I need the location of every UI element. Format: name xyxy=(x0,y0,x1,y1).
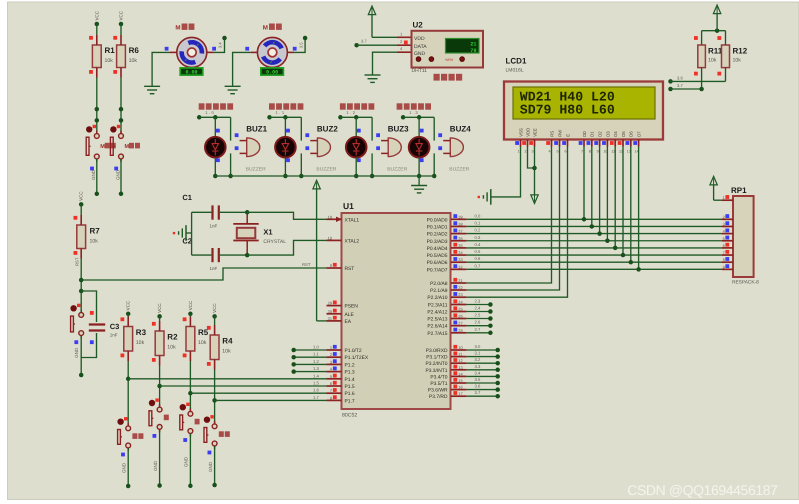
svg-text:P0.7/AD7: P0.7/AD7 xyxy=(427,267,448,273)
svg-text:1.2: 1.2 xyxy=(313,359,319,364)
capacitor C3 xyxy=(81,291,119,358)
svg-text:6: 6 xyxy=(564,150,566,154)
svg-text:37: 37 xyxy=(458,229,462,234)
wire key to GND end xyxy=(208,446,217,487)
svg-text:VSS: VSS xyxy=(518,128,523,137)
net labels 0.0-0.7 xyxy=(475,213,481,268)
wire button K2 to GND node xyxy=(114,159,123,196)
wire button K1 to GND node xyxy=(90,159,99,196)
svg-text:VDD: VDD xyxy=(525,128,530,137)
svg-text:BUZZER: BUZZER xyxy=(387,166,407,172)
svg-text:R3: R3 xyxy=(136,328,147,337)
svg-text:D4: D4 xyxy=(613,131,618,137)
svg-text:VCC: VCC xyxy=(94,10,99,20)
svg-text:M: M xyxy=(100,144,105,150)
svg-text:P2.0/A8: P2.0/A8 xyxy=(430,281,448,287)
button K2 (M const-speed key) xyxy=(110,125,123,162)
svg-text:21: 21 xyxy=(470,42,476,48)
svg-text:3.7: 3.7 xyxy=(361,39,367,44)
svg-text:GND: GND xyxy=(115,169,120,180)
svg-text:BUZ2: BUZ2 xyxy=(317,124,338,133)
svg-text:GND: GND xyxy=(74,347,79,358)
svg-text:39: 39 xyxy=(458,214,462,219)
svg-text:5: 5 xyxy=(556,150,558,154)
svg-text:2.4: 2.4 xyxy=(475,306,481,311)
wire R11/R12 tops to power xyxy=(702,14,726,33)
microcontroller U1 80C52 xyxy=(327,201,467,419)
svg-text:1: 1 xyxy=(517,150,519,154)
wire P0 bus to RP1 xyxy=(466,219,722,269)
svg-text:M: M xyxy=(125,144,130,150)
svg-text:3.6: 3.6 xyxy=(677,75,683,80)
svg-text:M: M xyxy=(263,25,268,32)
svg-text:9: 9 xyxy=(723,264,725,269)
resistor R12 xyxy=(717,31,747,82)
resistor R1 xyxy=(89,35,115,78)
svg-text:P0.4/AD4: P0.4/AD4 xyxy=(427,246,448,252)
svg-text:3.2: 3.2 xyxy=(475,357,481,362)
svg-text:P2.2/A10: P2.2/A10 xyxy=(427,295,447,301)
svg-text:1.1: 1.1 xyxy=(313,352,319,357)
svg-text:P1.0/T2: P1.0/T2 xyxy=(345,348,362,354)
svg-text:25: 25 xyxy=(458,307,462,312)
resistor R2 xyxy=(152,316,178,365)
wire R5 to key xyxy=(188,361,193,411)
svg-text:17: 17 xyxy=(458,391,462,396)
svg-text:10k: 10k xyxy=(198,340,207,346)
resistor R5 xyxy=(183,314,209,361)
svg-text:33: 33 xyxy=(458,257,462,262)
net label 1.1 xyxy=(276,110,286,115)
svg-text:13: 13 xyxy=(458,365,462,370)
power terminal (RP1) xyxy=(710,176,717,200)
svg-text:23: 23 xyxy=(458,292,462,297)
label key (red) xyxy=(195,419,200,425)
wire U2 DATA net stub 3.7 xyxy=(354,39,397,48)
label U2 (thermo-hygrometer) xyxy=(434,74,463,81)
watermark xyxy=(627,482,778,498)
wire R1 to button K1 xyxy=(95,78,100,134)
svg-text:RST: RST xyxy=(302,262,311,267)
label alarm 2 (red) xyxy=(269,103,303,109)
svg-text:R7: R7 xyxy=(90,227,101,236)
svg-text:3: 3 xyxy=(723,221,725,226)
svg-text:R2: R2 xyxy=(167,333,178,342)
wire key to GND end xyxy=(121,448,130,488)
wire buzzer group BUZ2 top xyxy=(267,115,301,141)
svg-text:RST: RST xyxy=(75,257,80,266)
svg-text:P3.5/T1: P3.5/T1 xyxy=(430,381,447,387)
svg-text:VCC: VCC xyxy=(79,191,84,201)
svg-text:D1: D1 xyxy=(590,131,595,137)
svg-text:10k: 10k xyxy=(90,239,99,245)
wire crystal left rail xyxy=(191,212,193,255)
svg-text:9: 9 xyxy=(330,263,332,268)
svg-text:R6: R6 xyxy=(129,46,140,55)
svg-text:10k: 10k xyxy=(105,58,114,64)
svg-text:10k: 10k xyxy=(733,58,742,64)
svg-text:10k: 10k xyxy=(167,345,176,351)
LED D1 xyxy=(205,129,226,162)
svg-text:3.4: 3.4 xyxy=(475,370,481,375)
svg-text:0.0: 0.0 xyxy=(475,213,481,218)
svg-text:1.6: 1.6 xyxy=(313,388,319,393)
wire power to U1 EA xyxy=(317,320,327,322)
svg-text:80C52: 80C52 xyxy=(342,413,357,419)
wire buzzer group BUZ3 top xyxy=(338,115,372,141)
wire buzzer group BUZ4 top xyxy=(401,115,434,141)
wire key to GND end xyxy=(153,430,162,488)
svg-text:1.3: 1.3 xyxy=(313,366,319,371)
svg-text:P1.5: P1.5 xyxy=(345,384,355,390)
LCD1 LM016L xyxy=(504,57,663,154)
resistor R6 xyxy=(113,35,139,78)
svg-text:32: 32 xyxy=(458,264,462,269)
svg-text:GND: GND xyxy=(414,51,426,57)
label M-key 2 xyxy=(125,143,141,150)
svg-text:1.0: 1.0 xyxy=(313,345,319,350)
svg-text:27: 27 xyxy=(458,321,462,326)
resistor R3 xyxy=(121,314,147,361)
svg-text:8: 8 xyxy=(330,395,332,400)
svg-text:D2: D2 xyxy=(598,131,603,137)
svg-text:3.3: 3.3 xyxy=(475,364,481,369)
wire reset button branch xyxy=(74,291,81,358)
wire R7 to reset node xyxy=(79,259,84,294)
svg-text:VCC: VCC xyxy=(188,300,193,310)
svg-text:BUZZER: BUZZER xyxy=(246,166,266,172)
svg-text:21: 21 xyxy=(458,278,462,283)
power VCC terminal (R6 column) xyxy=(119,10,124,26)
LED D2 xyxy=(275,129,296,162)
svg-text:6: 6 xyxy=(723,243,725,248)
svg-text:VCC: VCC xyxy=(212,303,217,313)
svg-text:1: 1 xyxy=(723,195,725,200)
svg-text:RP1: RP1 xyxy=(731,186,747,195)
net label 1.3 xyxy=(409,110,419,115)
svg-text:28: 28 xyxy=(458,328,462,333)
svg-text:GND: GND xyxy=(91,169,96,180)
svg-text:P2.5/A13: P2.5/A13 xyxy=(427,317,447,323)
svg-text:0.00: 0.00 xyxy=(185,70,197,76)
svg-text:P0.5/AD5: P0.5/AD5 xyxy=(427,253,448,259)
wire LCD data D0-D7 to P0 bus xyxy=(582,147,641,272)
wire net 1.7 to U1 xyxy=(215,399,327,401)
svg-text:5: 5 xyxy=(330,374,332,379)
svg-text:22: 22 xyxy=(458,285,462,290)
label alarm 4 (red) xyxy=(397,103,431,109)
motor M1 (speed-adjust fan) xyxy=(175,24,206,68)
svg-text:P3.4/T0: P3.4/T0 xyxy=(430,374,447,380)
resistor R4 xyxy=(207,316,233,369)
svg-text:XTAL1: XTAL1 xyxy=(345,217,360,223)
svg-text:%RH: %RH xyxy=(445,58,454,62)
svg-text:P0.2/AD2: P0.2/AD2 xyxy=(427,232,448,238)
ground (U2) xyxy=(365,75,381,82)
svg-text:ALE: ALE xyxy=(345,312,355,318)
buzzer BUZ1 xyxy=(235,124,268,172)
svg-text:2.6: 2.6 xyxy=(475,320,481,325)
svg-text:3.7: 3.7 xyxy=(475,390,481,395)
svg-text:D5: D5 xyxy=(621,131,626,137)
svg-text:P1.1/T2EX: P1.1/T2EX xyxy=(345,355,369,361)
LED D3 xyxy=(346,129,367,162)
svg-text:3.7: 3.7 xyxy=(677,83,683,88)
power VCC terminal (R1 column) xyxy=(94,10,99,26)
wire net stubs P1.0-P1.3 xyxy=(291,348,326,374)
buzzer BUZ4 xyxy=(438,124,471,172)
svg-text:3.5: 3.5 xyxy=(298,42,303,48)
button K6 xyxy=(204,415,217,449)
svg-text:2.7: 2.7 xyxy=(475,327,481,332)
svg-text:BUZZER: BUZZER xyxy=(316,166,336,172)
svg-text:6: 6 xyxy=(330,381,332,386)
crystal X1 xyxy=(233,210,286,257)
svg-text:D6: D6 xyxy=(629,131,634,137)
svg-text:1: 1 xyxy=(330,345,332,350)
svg-text:0.5: 0.5 xyxy=(475,249,481,254)
svg-text:LM016L: LM016L xyxy=(506,68,524,74)
svg-text:D0: D0 xyxy=(582,131,587,137)
svg-text:X1: X1 xyxy=(263,228,272,237)
svg-text:79: 79 xyxy=(470,48,476,54)
wire net 1.4 to U1 xyxy=(128,378,326,380)
wire X1 top to U1 XTAL1 xyxy=(247,212,326,219)
svg-text:D7: D7 xyxy=(637,131,642,137)
svg-text:VDD: VDD xyxy=(414,36,425,42)
svg-text:PSEN: PSEN xyxy=(345,304,359,310)
svg-text:P3.0/RXD: P3.0/RXD xyxy=(426,348,448,354)
svg-text:35: 35 xyxy=(458,243,462,248)
svg-text:P1.3: P1.3 xyxy=(345,370,355,376)
svg-text:1nF: 1nF xyxy=(110,333,118,338)
svg-text:9: 9 xyxy=(597,150,599,154)
svg-text:GND: GND xyxy=(208,461,213,472)
wire VCC to R6 xyxy=(120,24,122,35)
svg-text:P3.7/RD: P3.7/RD xyxy=(429,394,448,400)
svg-text:2.5: 2.5 xyxy=(475,313,481,318)
ground (crystal) xyxy=(173,225,192,241)
svg-text:R12: R12 xyxy=(733,47,748,56)
power VCC terminal (R3) xyxy=(126,300,131,316)
svg-text:1.4: 1.4 xyxy=(313,373,319,378)
svg-text:VCC: VCC xyxy=(157,303,162,313)
svg-text:1.0: 1.0 xyxy=(205,110,215,115)
svg-text:VCC: VCC xyxy=(119,10,124,20)
svg-text:SD79 H80 L60: SD79 H80 L60 xyxy=(520,103,615,118)
svg-text:38: 38 xyxy=(458,221,462,226)
svg-text:19: 19 xyxy=(328,214,332,219)
svg-text:7: 7 xyxy=(581,150,583,154)
svg-text:BUZZER: BUZZER xyxy=(449,166,469,172)
svg-text:2.3: 2.3 xyxy=(475,299,481,304)
wire P2.2 to LCD E xyxy=(466,147,567,298)
wire P2.0 to LCD RS xyxy=(466,147,551,284)
svg-text:0.4: 0.4 xyxy=(475,242,481,247)
wire net 1.6 to U1 xyxy=(190,392,326,394)
svg-text:DATA: DATA xyxy=(414,44,427,50)
svg-text:8: 8 xyxy=(723,257,725,262)
svg-text:3.5: 3.5 xyxy=(475,377,481,382)
svg-text:1.2: 1.2 xyxy=(346,110,356,115)
wire power to RP1 pin1 xyxy=(714,199,722,201)
power terminal down (LCD VEE) xyxy=(531,195,538,204)
ground (motor M1) xyxy=(144,86,160,93)
wire LCD VSS to ground xyxy=(491,147,521,197)
svg-text:7: 7 xyxy=(723,250,725,255)
svg-text:18: 18 xyxy=(328,235,332,240)
label key (red) xyxy=(164,415,169,421)
wire buzzer ground rail xyxy=(215,176,434,186)
label M-key 1 xyxy=(100,143,116,150)
wire R6 to button K2 xyxy=(119,78,124,134)
svg-text:P0.0/AD0: P0.0/AD0 xyxy=(427,217,448,223)
svg-text:1.3: 1.3 xyxy=(409,110,419,115)
svg-text:P3.2/INT0: P3.2/INT0 xyxy=(425,361,447,367)
wire U2 GND to ground xyxy=(373,52,398,75)
svg-text:BUZ4: BUZ4 xyxy=(450,124,471,133)
wire BUZ4 pins to rail xyxy=(417,153,437,178)
wire motor M1 left pin to ground xyxy=(152,47,177,87)
net labels 1.0-1.7 xyxy=(313,345,319,400)
label alarm 3 (red) xyxy=(340,103,374,109)
wire net 1.5 to U1 xyxy=(160,385,327,387)
resistor R7 xyxy=(74,215,101,266)
svg-text:3: 3 xyxy=(531,150,533,154)
svg-text:CSDN @QQ1694456187: CSDN @QQ1694456187 xyxy=(627,482,778,498)
svg-text:15: 15 xyxy=(458,378,462,383)
svg-text:3.1: 3.1 xyxy=(475,351,481,356)
svg-text:11: 11 xyxy=(458,352,462,357)
wire R4 to key xyxy=(212,370,217,424)
svg-text:P3.3/INT1: P3.3/INT1 xyxy=(425,368,447,374)
svg-text:12: 12 xyxy=(458,358,462,363)
wire VCC to R1 xyxy=(96,24,98,35)
svg-text:10k: 10k xyxy=(708,58,717,64)
svg-text:7: 7 xyxy=(330,388,332,393)
button K4 xyxy=(149,398,162,432)
svg-text:C1: C1 xyxy=(182,193,192,202)
svg-text:P0.6/AD6: P0.6/AD6 xyxy=(427,260,448,266)
svg-text:4: 4 xyxy=(548,150,550,154)
svg-text:26: 26 xyxy=(458,314,462,319)
svg-text:R11: R11 xyxy=(708,47,723,56)
ground (LCD VSS) xyxy=(478,189,491,205)
buzzer BUZ3 xyxy=(376,124,409,172)
svg-text:BUZ3: BUZ3 xyxy=(388,124,409,133)
button K0 (reset) xyxy=(70,304,83,339)
motor M1 display xyxy=(180,68,203,76)
svg-text:DHT11: DHT11 xyxy=(412,68,428,74)
label key (red) xyxy=(219,431,230,437)
svg-text:RS: RS xyxy=(549,131,554,137)
svg-text:GND: GND xyxy=(153,460,158,471)
svg-text:XTAL2: XTAL2 xyxy=(345,238,360,244)
svg-text:P3.6/WR: P3.6/WR xyxy=(428,388,448,394)
svg-text:P0.1/AD1: P0.1/AD1 xyxy=(427,224,448,230)
svg-text:10k: 10k xyxy=(129,58,138,64)
capacitor C2 xyxy=(182,237,247,272)
wire R2 to key xyxy=(157,366,162,408)
wire VCC to R7 xyxy=(80,204,82,215)
power VCC terminal (R2) xyxy=(157,303,162,319)
buzzer BUZ2 xyxy=(305,124,338,172)
svg-text:CRYSTAL: CRYSTAL xyxy=(263,239,286,245)
wire P2.1 to LCD RW xyxy=(466,147,559,291)
svg-text:0.1: 0.1 xyxy=(475,220,481,225)
label key (red) xyxy=(132,433,143,439)
svg-text:C2: C2 xyxy=(182,237,192,246)
svg-text:U2: U2 xyxy=(413,21,424,30)
svg-text:M: M xyxy=(175,25,180,32)
svg-text:2: 2 xyxy=(330,352,332,357)
LED D4 xyxy=(409,129,430,162)
sensor U2 DHT11 xyxy=(397,21,483,75)
svg-text:P0.3/AD3: P0.3/AD3 xyxy=(427,239,448,245)
wire R3 to key xyxy=(126,361,131,426)
wire motor M1 right pin to net stub xyxy=(207,36,227,53)
power VCC terminal (R5) xyxy=(188,300,193,316)
power terminal (EA) xyxy=(313,180,320,321)
svg-text:1nF: 1nF xyxy=(210,266,218,271)
wire motor M2 left pin to ground xyxy=(233,47,258,87)
wire net 3.7 to R11 xyxy=(668,83,704,91)
svg-text:RESPACK-8: RESPACK-8 xyxy=(732,280,759,286)
power VCC terminal (R4) xyxy=(212,303,217,319)
svg-text:1.7: 1.7 xyxy=(313,395,319,400)
svg-text:VEE: VEE xyxy=(532,128,537,137)
svg-text:GND: GND xyxy=(121,462,126,473)
capacitor C1 xyxy=(182,193,247,229)
wire X1 bottom to U1 XTAL2 xyxy=(247,240,326,255)
svg-text:P2.6/A14: P2.6/A14 xyxy=(427,324,447,330)
wire buzzer group BUZ1 top xyxy=(197,115,231,141)
svg-text:P1.4: P1.4 xyxy=(345,377,355,383)
wire motor M2 right pin to net stub xyxy=(287,36,307,53)
svg-text:1.5: 1.5 xyxy=(313,381,319,386)
svg-text:EA: EA xyxy=(345,319,352,325)
svg-text:1nF: 1nF xyxy=(210,224,218,229)
motor M2 display xyxy=(261,68,284,76)
svg-text:3.0: 3.0 xyxy=(475,344,481,349)
wire net 3.6 to R12 xyxy=(668,75,725,83)
ground (buzzer rail) xyxy=(411,186,427,193)
svg-text:1.1: 1.1 xyxy=(276,110,286,115)
wire LCD VDD/VEE to power xyxy=(528,147,537,195)
svg-text:3.4: 3.4 xyxy=(218,42,223,48)
svg-text:0.3: 0.3 xyxy=(475,235,481,240)
svg-text:3.6: 3.6 xyxy=(475,384,481,389)
svg-text:3: 3 xyxy=(330,359,332,364)
wire key to GND end xyxy=(183,434,192,488)
svg-text:R1: R1 xyxy=(105,46,116,55)
wire RST net to U1 xyxy=(81,262,326,280)
svg-text:U1: U1 xyxy=(343,201,354,211)
svg-text:R4: R4 xyxy=(222,337,233,346)
wire BUZ3 pins to rail xyxy=(354,153,374,178)
svg-text:P1.7: P1.7 xyxy=(345,398,355,404)
svg-text:E: E xyxy=(565,134,570,137)
ground (motor M2) xyxy=(225,86,241,93)
button K1 (M speed set key) xyxy=(86,125,99,162)
svg-text:36: 36 xyxy=(458,236,462,241)
wire BUZ1 pins to rail xyxy=(213,153,233,178)
svg-text:2: 2 xyxy=(524,150,526,154)
wire BUZ2 pins to rail xyxy=(283,153,303,178)
resistor R11 xyxy=(694,31,723,89)
svg-text:P2.3/A11: P2.3/A11 xyxy=(428,303,448,309)
svg-text:C3: C3 xyxy=(110,322,120,331)
